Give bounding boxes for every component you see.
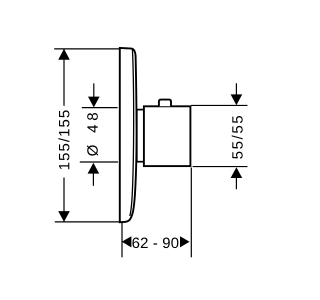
reference line 55 top (191, 104, 248, 106)
reference line 55 bottom (193, 166, 248, 168)
escutcheon plate (side view) (120, 48, 137, 222)
arrow 55 down (231, 94, 243, 105)
dimension 155 line bottom segment (63, 178, 65, 222)
sleeve collar (137, 110, 144, 162)
arrow 155 down (58, 211, 70, 222)
tick d48 top (82, 107, 118, 109)
arrow d48 up (88, 163, 100, 174)
dimension 55 line bottom segment (235, 177, 237, 189)
dimension d48 line top segment (93, 83, 95, 98)
dimension d48 line bottom segment (92, 173, 94, 186)
extension line 62-90 left (121, 223, 123, 257)
handle body (144, 106, 191, 166)
dimension 155 line top segment (63, 50, 65, 106)
arrow 55 up (231, 167, 243, 178)
label 55/55 (232, 116, 243, 159)
extension line 155 top (54, 48, 119, 50)
label 155/155 (58, 110, 69, 169)
arrow 62-90 right (180, 236, 190, 247)
label 62-90 (132, 238, 178, 249)
extension line 62-90 right (190, 168, 192, 258)
plate front inner contour (130, 49, 134, 216)
arrow 62-90 left (122, 236, 132, 247)
arrow 155 up (58, 49, 70, 60)
tick d48 bottom (80, 161, 118, 163)
tab button on handle (159, 100, 171, 107)
arrow d48 down (88, 97, 100, 108)
extension line 155 bottom (55, 221, 120, 223)
dimension 55 line top segment (235, 83, 237, 96)
label d48 (87, 113, 98, 156)
